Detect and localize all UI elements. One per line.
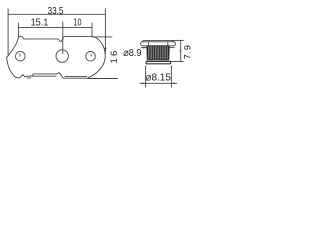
arrowhead 8.15 left	[142, 83, 145, 85]
dimension 33.5 line	[8, 13, 105, 15]
screw hole left centre mark	[19, 53, 21, 56]
bushing knurl hatching (light streaks)	[148, 46, 167, 59]
screw hole left	[15, 51, 25, 61]
arrowhead 16	[104, 48, 106, 51]
arrowhead 7.9 middle	[179, 49, 181, 51]
bushing flange top edge	[144, 39, 173, 41]
plate fold line bottom right	[65, 75, 88, 77]
svg-text:⌀8.15: ⌀8.15	[145, 72, 171, 84]
bushing flange inner line right	[167, 42, 169, 45]
bushing flange left shoulder	[142, 40, 175, 42]
dimension 15.1/10 line	[18, 26, 92, 28]
plate fold line bottom middle	[32, 75, 57, 77]
bushing bottom rim	[146, 61, 171, 63]
dimension 7.9 extension line top	[173, 39, 184, 41]
dimension 15.1/10 tick left	[17, 23, 19, 38]
dimension 15.1/10 extension line middle	[62, 22, 64, 55]
bushing flange inner line left	[148, 42, 150, 45]
svg-text:⌀8.9: ⌀8.9	[123, 47, 141, 59]
bushing flange	[141, 42, 176, 46]
screw hole right centre mark	[90, 54, 92, 57]
dimension 8.15 extension line left	[145, 66, 147, 88]
dimension 15.1/10 tick right	[91, 23, 93, 37]
post hole centre	[56, 50, 68, 62]
plate fold line bottom left	[27, 77, 31, 79]
tuner plate outline	[7, 36, 106, 78]
bushing knurled body outline	[147, 46, 170, 60]
dimension 8.9 leader right	[170, 47, 175, 49]
dimension 8.15 line	[140, 82, 178, 84]
arrowhead 8.9 left	[143, 47, 147, 49]
dimension 8.9 leader left	[141, 47, 147, 49]
svg-text:15.1: 15.1	[31, 18, 49, 29]
dimension 8.15 extension line right	[170, 66, 172, 88]
dimension 16 extension line top	[93, 36, 113, 38]
svg-text:16: 16	[109, 49, 120, 64]
dimension 16 extension line bottom	[88, 78, 119, 80]
svg-text:10: 10	[74, 17, 82, 28]
dimension 7.9 extension line bottom	[171, 61, 184, 63]
svg-text:33.5: 33.5	[48, 6, 64, 17]
svg-text:7.9: 7.9	[183, 44, 193, 59]
arrowhead 8.15 right	[171, 83, 174, 85]
dimension 33.5 extension line left	[7, 9, 9, 56]
dimension 7.9 line	[180, 40, 182, 61]
dimension 33.5 extension line right / 16 dimension line	[104, 8, 106, 54]
screw hole right	[86, 52, 96, 62]
